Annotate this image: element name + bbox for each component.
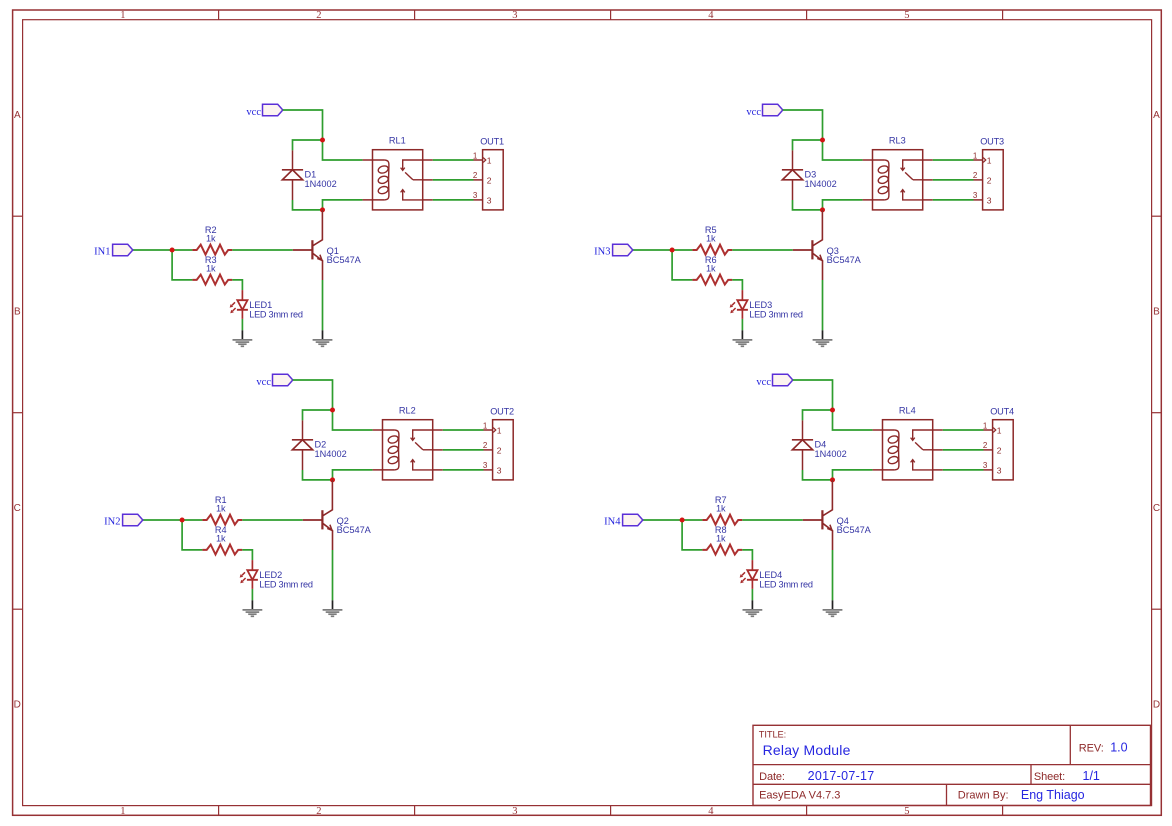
svg-text:3: 3 xyxy=(483,461,488,470)
frame column ticks bottom xyxy=(219,806,1003,816)
svg-text:4: 4 xyxy=(708,806,714,817)
svg-text:1: 1 xyxy=(487,156,492,166)
net flag vcc (RL2) xyxy=(256,374,292,388)
relay RL1 xyxy=(363,136,433,210)
svg-text:2: 2 xyxy=(473,171,478,180)
resistor R7 1k xyxy=(702,495,742,525)
wire junction to diode cathode xyxy=(793,140,823,150)
wire junction to relay coil pin 1 xyxy=(833,410,873,430)
svg-text:2: 2 xyxy=(483,441,488,450)
junction vcc node xyxy=(320,138,325,143)
junction collector node xyxy=(330,477,335,482)
svg-text:4: 4 xyxy=(708,10,714,21)
svg-text:RL2: RL2 xyxy=(399,406,416,416)
junction vcc node xyxy=(830,408,835,413)
svg-text:Sheet:: Sheet: xyxy=(1034,771,1065,783)
wire R8 to LED4 anode xyxy=(742,550,752,560)
junction input node xyxy=(670,248,675,253)
svg-text:Drawn By:: Drawn By: xyxy=(958,790,1009,802)
wire vcc to junction xyxy=(783,110,823,140)
diode D2 1N4002 xyxy=(292,420,347,470)
LED LED4 3mm red xyxy=(740,560,813,589)
svg-text:2: 2 xyxy=(316,806,321,817)
svg-text:3: 3 xyxy=(487,196,492,206)
net flag vcc (RL1) xyxy=(246,104,282,118)
svg-text:1: 1 xyxy=(497,426,502,436)
wire lower junction to relay coil pin 2 xyxy=(823,200,863,210)
svg-text:EasyEDA V4.7.3: EasyEDA V4.7.3 xyxy=(759,790,840,802)
svg-text:vcc: vcc xyxy=(746,107,761,118)
net flag vcc (RL3) xyxy=(746,104,782,118)
svg-text:3: 3 xyxy=(987,196,992,206)
svg-text:1k: 1k xyxy=(716,503,726,513)
svg-text:3: 3 xyxy=(473,191,478,200)
svg-text:IN4: IN4 xyxy=(604,517,621,528)
svg-text:1/1: 1/1 xyxy=(1083,769,1100,783)
wire LED3 cathode to ground xyxy=(741,319,743,330)
svg-text:3: 3 xyxy=(512,806,517,817)
transistor Q3 BC547A xyxy=(793,210,862,280)
relay RL3 xyxy=(863,136,933,210)
diode D4 1N4002 xyxy=(792,420,847,470)
svg-text:3: 3 xyxy=(997,466,1002,476)
svg-text:1k: 1k xyxy=(206,233,216,243)
junction input node xyxy=(680,518,685,523)
wire vcc to junction xyxy=(293,380,333,410)
wire junction to relay coil pin 1 xyxy=(333,410,373,430)
svg-text:1: 1 xyxy=(483,421,488,430)
resistor R5 1k xyxy=(692,225,732,255)
svg-text:1: 1 xyxy=(120,806,125,817)
frame column ticks top xyxy=(219,10,1003,20)
svg-text:LED 3mm red: LED 3mm red xyxy=(259,579,313,589)
wire junction to relay coil pin 1 xyxy=(323,140,363,160)
svg-text:B: B xyxy=(14,307,21,318)
svg-text:2: 2 xyxy=(497,446,502,456)
svg-text:OUT3: OUT3 xyxy=(980,136,1004,146)
svg-text:OUT4: OUT4 xyxy=(990,406,1014,416)
junction vcc node xyxy=(820,138,825,143)
svg-text:C: C xyxy=(14,503,21,514)
wire relay contact to connector pin 2 xyxy=(433,179,474,181)
svg-text:C: C xyxy=(1153,503,1160,514)
connector OUT1 xyxy=(473,136,504,210)
wire relay contact to connector pin 2 xyxy=(943,449,984,451)
wire relay contact to connector pin 1 xyxy=(433,159,474,161)
svg-text:5: 5 xyxy=(904,806,909,817)
junction input node xyxy=(180,518,185,523)
svg-text:BC547A: BC547A xyxy=(827,255,862,265)
frame row ticks left xyxy=(13,216,23,609)
junction collector node xyxy=(320,207,325,212)
svg-text:IN1: IN1 xyxy=(94,247,110,258)
svg-text:vcc: vcc xyxy=(756,377,771,388)
frame row ticks right xyxy=(1152,216,1162,609)
svg-text:1: 1 xyxy=(120,10,125,21)
svg-text:Date:: Date: xyxy=(759,771,785,783)
junction input node xyxy=(170,248,175,253)
ground (Q2) xyxy=(323,600,343,616)
junction vcc node xyxy=(330,408,335,413)
svg-text:2: 2 xyxy=(973,171,978,180)
wire R7 to transistor base xyxy=(742,519,803,521)
relay RL4 xyxy=(873,406,943,480)
svg-text:LED 3mm red: LED 3mm red xyxy=(749,309,803,319)
wire lower junction to relay coil pin 2 xyxy=(323,200,363,210)
ground (LED2) xyxy=(243,600,263,616)
ground (Q1) xyxy=(313,330,333,346)
svg-text:D: D xyxy=(1153,700,1160,711)
svg-text:IN3: IN3 xyxy=(594,247,610,258)
svg-text:1: 1 xyxy=(987,156,992,166)
svg-text:1.0: 1.0 xyxy=(1110,741,1127,755)
wire IN4 to resistors xyxy=(643,519,703,521)
wire junction to diode cathode xyxy=(293,140,323,150)
frame row letters left xyxy=(14,110,21,710)
wire IN1 to resistors xyxy=(133,249,193,251)
svg-text:IN2: IN2 xyxy=(104,517,120,528)
svg-text:1: 1 xyxy=(973,151,978,160)
svg-text:3: 3 xyxy=(983,461,988,470)
wire relay contact to connector pin 3 xyxy=(933,199,974,201)
svg-text:RL1: RL1 xyxy=(389,136,406,146)
svg-text:1k: 1k xyxy=(216,503,226,513)
svg-text:B: B xyxy=(1153,307,1160,318)
frame row letters right xyxy=(1153,110,1160,710)
wire relay contact to connector pin 1 xyxy=(443,429,484,431)
resistor R2 1k xyxy=(192,225,232,255)
ground (Q3) xyxy=(813,330,833,346)
svg-text:2: 2 xyxy=(487,176,492,186)
net flag IN2 xyxy=(104,514,143,527)
diode D3 1N4002 xyxy=(782,150,837,200)
svg-text:A: A xyxy=(1153,110,1160,121)
svg-text:1N4002: 1N4002 xyxy=(805,179,837,189)
wire R3 to LED1 anode xyxy=(232,280,242,290)
LED LED1 3mm red xyxy=(230,290,303,319)
wire vcc to junction xyxy=(283,110,323,140)
wire relay contact to connector pin 1 xyxy=(933,159,974,161)
svg-text:1k: 1k xyxy=(706,233,716,243)
svg-text:OUT1: OUT1 xyxy=(480,136,504,146)
wire Q1 emitter to ground xyxy=(322,280,324,330)
svg-text:2: 2 xyxy=(987,176,992,186)
ground (LED4) xyxy=(743,600,763,616)
wire diode anode to lower junction xyxy=(793,200,823,210)
svg-text:LED 3mm red: LED 3mm red xyxy=(759,579,813,589)
svg-text:D: D xyxy=(14,700,21,711)
wire relay contact to connector pin 1 xyxy=(943,429,984,431)
wire diode anode to lower junction xyxy=(293,200,323,210)
wire LED2 cathode to ground xyxy=(251,589,253,600)
junction collector node xyxy=(830,477,835,482)
svg-text:D2: D2 xyxy=(315,439,327,449)
connector OUT3 xyxy=(973,136,1004,210)
svg-text:BC547A: BC547A xyxy=(337,525,372,535)
svg-text:2017-07-17: 2017-07-17 xyxy=(808,769,875,783)
wire Q2 emitter to ground xyxy=(332,550,334,600)
diode D1 1N4002 xyxy=(282,150,337,200)
svg-text:1: 1 xyxy=(997,426,1002,436)
svg-text:1k: 1k xyxy=(206,263,216,273)
wire Q3 emitter to ground xyxy=(822,280,824,330)
svg-text:3: 3 xyxy=(973,191,978,200)
wire input junction to R6 xyxy=(672,250,692,280)
wire input junction to R8 xyxy=(682,520,702,550)
svg-text:BC547A: BC547A xyxy=(327,255,362,265)
LED LED2 3mm red xyxy=(240,560,313,589)
ground (Q4) xyxy=(823,600,843,616)
transistor Q4 BC547A xyxy=(803,480,872,550)
wire junction to diode cathode xyxy=(303,410,333,420)
svg-text:TITLE:: TITLE: xyxy=(759,730,786,740)
wire R4 to LED2 anode xyxy=(242,550,252,560)
wire diode anode to lower junction xyxy=(303,470,333,480)
svg-text:1N4002: 1N4002 xyxy=(815,449,847,459)
net flag IN3 xyxy=(594,244,633,257)
svg-text:LED 3mm red: LED 3mm red xyxy=(249,309,303,319)
svg-text:vcc: vcc xyxy=(256,377,271,388)
svg-text:RL4: RL4 xyxy=(899,406,916,416)
resistor R3 1k xyxy=(192,255,232,285)
wire relay contact to connector pin 3 xyxy=(433,199,474,201)
wire input junction to R4 xyxy=(182,520,202,550)
junction collector node xyxy=(820,207,825,212)
svg-text:D4: D4 xyxy=(815,439,827,449)
wire relay contact to connector pin 3 xyxy=(943,469,984,471)
svg-text:OUT2: OUT2 xyxy=(490,406,514,416)
svg-text:1N4002: 1N4002 xyxy=(305,179,337,189)
LED LED3 3mm red xyxy=(730,290,803,319)
svg-text:BC547A: BC547A xyxy=(837,525,872,535)
relay RL2 xyxy=(373,406,443,480)
svg-text:3: 3 xyxy=(497,466,502,476)
wire junction to relay coil pin 1 xyxy=(823,140,863,160)
svg-text:vcc: vcc xyxy=(246,107,261,118)
wire R6 to LED3 anode xyxy=(732,280,742,290)
wire LED1 cathode to ground xyxy=(241,319,243,330)
svg-text:1k: 1k xyxy=(216,533,226,543)
resistor R1 1k xyxy=(202,495,242,525)
svg-text:RL3: RL3 xyxy=(889,136,906,146)
frame column numbers top xyxy=(120,10,909,21)
svg-text:2: 2 xyxy=(997,446,1002,456)
wire LED4 cathode to ground xyxy=(751,589,753,600)
connector OUT2 xyxy=(483,406,514,480)
wire R2 to transistor base xyxy=(232,249,293,251)
net flag IN1 xyxy=(94,244,133,257)
wire vcc to junction xyxy=(793,380,833,410)
net flag IN4 xyxy=(604,514,643,527)
resistor R8 1k xyxy=(702,525,742,555)
svg-text:1k: 1k xyxy=(706,263,716,273)
svg-text:Relay Module: Relay Module xyxy=(763,742,851,758)
svg-text:3: 3 xyxy=(512,10,517,21)
wire Q4 emitter to ground xyxy=(832,550,834,600)
transistor Q1 BC547A xyxy=(293,210,362,280)
wire junction to diode cathode xyxy=(803,410,833,420)
svg-text:A: A xyxy=(14,110,21,121)
connector OUT4 xyxy=(983,406,1014,480)
svg-text:Eng Thiago: Eng Thiago xyxy=(1021,788,1085,802)
net flag vcc (RL4) xyxy=(756,374,792,388)
transistor Q2 BC547A xyxy=(303,480,372,550)
wire relay contact to connector pin 3 xyxy=(443,469,484,471)
svg-text:5: 5 xyxy=(904,10,909,21)
wire relay contact to connector pin 2 xyxy=(933,179,974,181)
svg-text:2: 2 xyxy=(983,441,988,450)
wire R1 to transistor base xyxy=(242,519,303,521)
ground (LED1) xyxy=(233,330,253,346)
ground (LED3) xyxy=(733,330,753,346)
svg-text:1: 1 xyxy=(983,421,988,430)
wire IN3 to resistors xyxy=(633,249,693,251)
wire R5 to transistor base xyxy=(732,249,793,251)
frame column numbers bottom xyxy=(120,806,909,817)
svg-text:1: 1 xyxy=(473,151,478,160)
svg-text:2: 2 xyxy=(316,10,321,21)
resistor R4 1k xyxy=(202,525,242,555)
svg-text:D1: D1 xyxy=(305,169,317,179)
svg-text:1k: 1k xyxy=(716,533,726,543)
wire IN2 to resistors xyxy=(143,519,203,521)
wire diode anode to lower junction xyxy=(803,470,833,480)
svg-text:1N4002: 1N4002 xyxy=(315,449,347,459)
wire relay contact to connector pin 2 xyxy=(443,449,484,451)
wire lower junction to relay coil pin 2 xyxy=(333,470,373,480)
svg-text:D3: D3 xyxy=(805,169,817,179)
resistor R6 1k xyxy=(692,255,732,285)
title block xyxy=(753,725,1151,805)
svg-text:REV:: REV: xyxy=(1079,743,1104,755)
wire input junction to R3 xyxy=(172,250,192,280)
wire lower junction to relay coil pin 2 xyxy=(833,470,873,480)
